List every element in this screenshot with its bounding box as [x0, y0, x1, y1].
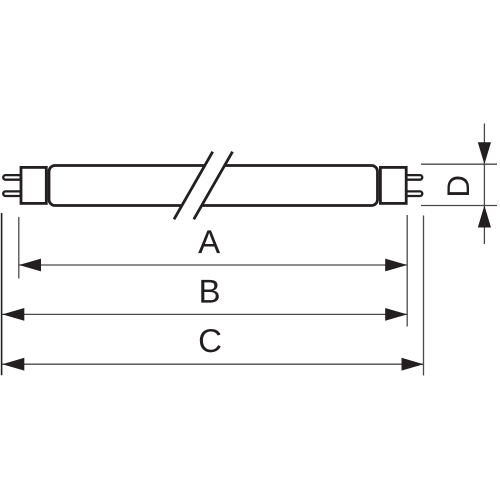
extension line left pin tip (for B and C) [1, 213, 3, 375]
extension line left cap face (for A) [18, 217, 20, 279]
extension line right pin tip (for C) [423, 216, 425, 376]
left pin top [3, 175, 21, 180]
left pin bottom [3, 191, 21, 196]
right pin top [404, 175, 422, 180]
dimension C line [2, 363, 423, 365]
extension line D bottom (tube bottom) [421, 205, 497, 207]
dimension D vertical line [483, 124, 485, 245]
lamp tube body [49, 166, 378, 206]
dimension A right arrow [385, 259, 407, 272]
dimension C right arrow [402, 358, 424, 371]
label A [198, 230, 220, 253]
label D (rotated) [447, 176, 469, 195]
extension line right cap face (for A and B) [406, 215, 408, 327]
label B [201, 280, 219, 303]
dimension C left arrow [2, 358, 24, 371]
dimension B left arrow [2, 308, 24, 321]
dimension D top arrow [478, 142, 491, 164]
dimension A line [19, 264, 407, 266]
break symbol white gap [174, 152, 233, 220]
dimension A left arrow [19, 259, 41, 272]
right pin bottom [404, 191, 422, 196]
dimension B line [2, 313, 407, 315]
label C [200, 329, 221, 352]
break diagonal line 2 [194, 152, 233, 220]
right lamp cap [380, 167, 406, 203]
break diagonal line 1 [174, 152, 213, 220]
dimension B right arrow [385, 308, 407, 321]
dimension D bottom arrow [478, 206, 491, 228]
left lamp cap [21, 167, 46, 203]
extension line D top (tube top) [421, 163, 497, 165]
